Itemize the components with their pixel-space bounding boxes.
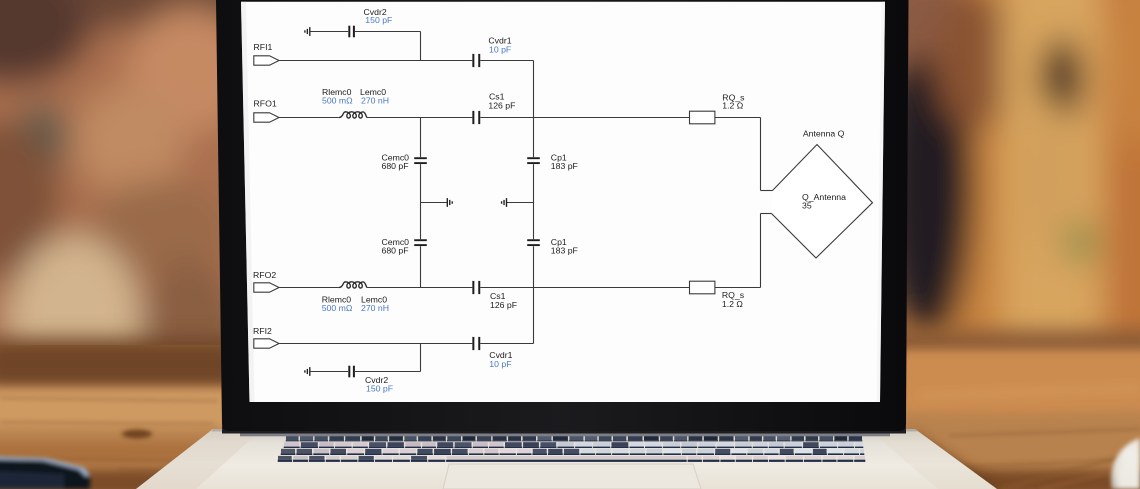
svg-text:RFO1: RFO1 <box>254 98 277 108</box>
svg-text:500 mΩ: 500 mΩ <box>322 96 353 106</box>
svg-text:270 nH: 270 nH <box>361 303 389 313</box>
svg-text:150 pF: 150 pF <box>365 15 392 25</box>
svg-text:150 pF: 150 pF <box>366 384 393 394</box>
svg-text:35: 35 <box>802 200 812 210</box>
svg-text:183 pF: 183 pF <box>551 245 578 255</box>
svg-text:183 pF: 183 pF <box>551 161 578 171</box>
svg-text:270 nH: 270 nH <box>361 96 389 106</box>
svg-text:10 pF: 10 pF <box>489 359 511 369</box>
svg-text:680 pF: 680 pF <box>382 245 409 255</box>
svg-text:680 pF: 680 pF <box>382 161 409 171</box>
svg-text:RFO2: RFO2 <box>253 270 276 280</box>
svg-text:126 pF: 126 pF <box>488 100 515 110</box>
svg-text:1.2 Ω: 1.2 Ω <box>722 100 743 110</box>
svg-text:1.2 Ω: 1.2 Ω <box>722 299 743 309</box>
svg-text:10 pF: 10 pF <box>489 44 511 54</box>
svg-text:500 mΩ: 500 mΩ <box>322 303 353 313</box>
svg-text:Antenna Q: Antenna Q <box>803 128 845 138</box>
svg-text:RFI2: RFI2 <box>253 326 272 336</box>
svg-text:RFI1: RFI1 <box>254 42 273 52</box>
svg-text:126 pF: 126 pF <box>490 300 517 310</box>
